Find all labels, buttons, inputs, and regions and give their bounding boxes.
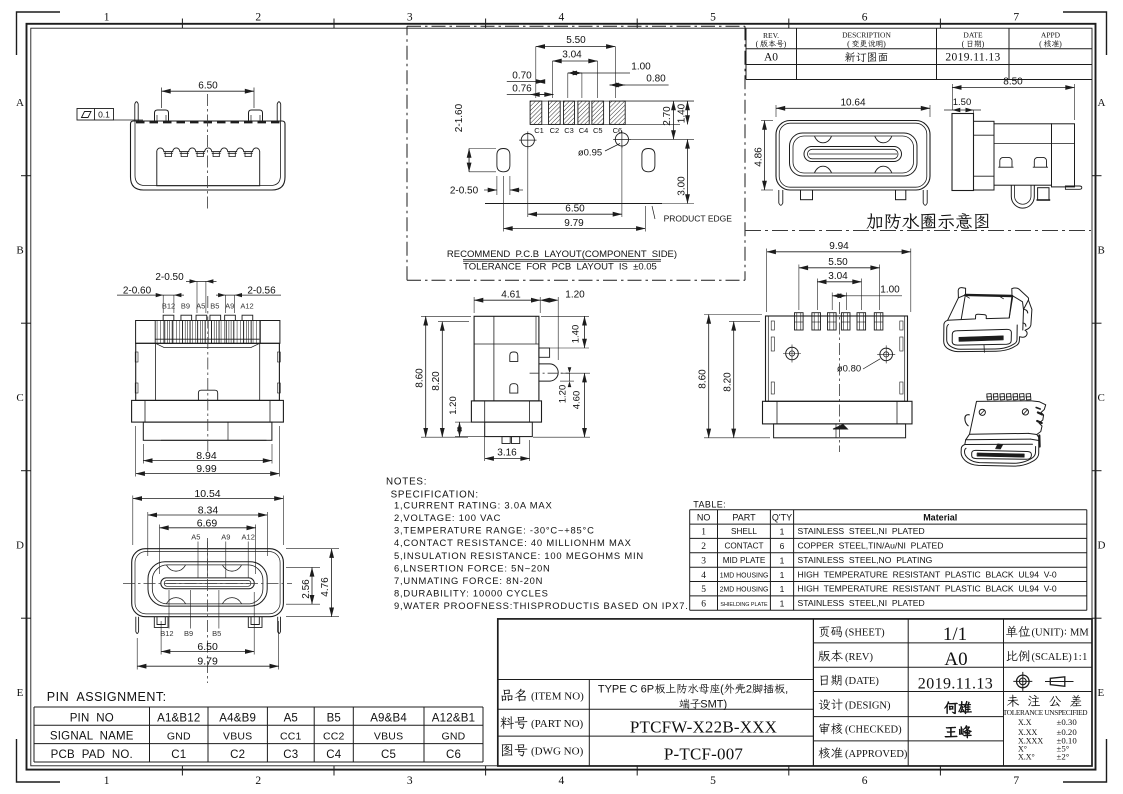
svg-text:A12: A12 <box>242 533 255 542</box>
svg-text:PIN NO: PIN NO <box>70 712 114 724</box>
svg-text:APPD: APPD <box>1041 31 1061 40</box>
svg-text:3: 3 <box>407 775 413 787</box>
svg-text:NOTES:: NOTES: <box>386 476 427 487</box>
svg-text:0.1: 0.1 <box>98 109 110 119</box>
svg-text:6: 6 <box>862 775 868 787</box>
svg-text:C: C <box>16 392 23 404</box>
svg-text:C3: C3 <box>283 749 298 761</box>
svg-text:0.70: 0.70 <box>512 71 532 82</box>
svg-text:5,INSULATION RESISTANCE: 100 M: 5,INSULATION RESISTANCE: 100 MEGOHMS MIN <box>394 550 644 561</box>
svg-text:MM: MM <box>1070 628 1089 639</box>
svg-text:2-0.56: 2-0.56 <box>247 285 276 296</box>
svg-text:7,UNMATING FORCE: 8N-20N: 7,UNMATING FORCE: 8N-20N <box>394 575 543 586</box>
svg-text:2MD HOUSING: 2MD HOUSING <box>720 587 769 594</box>
svg-text:A4&B9: A4&B9 <box>219 712 256 724</box>
svg-text:3.04: 3.04 <box>828 271 848 282</box>
svg-text:C4: C4 <box>579 126 589 135</box>
svg-text:C5: C5 <box>381 749 396 761</box>
svg-text:2: 2 <box>701 542 706 552</box>
svg-text:2: 2 <box>746 684 752 696</box>
svg-text:0.76: 0.76 <box>512 84 532 95</box>
svg-text:1.20: 1.20 <box>448 396 459 415</box>
svg-text:9.94: 9.94 <box>829 241 849 252</box>
svg-text:C: C <box>1098 392 1105 404</box>
svg-text:6: 6 <box>780 541 785 551</box>
svg-text:B5: B5 <box>212 629 221 638</box>
svg-text:1.00: 1.00 <box>631 62 651 73</box>
svg-text:2-0.50: 2-0.50 <box>450 186 479 197</box>
svg-text:,: , <box>785 684 788 696</box>
svg-text:PCB PAD NO.: PCB PAD NO. <box>51 749 133 761</box>
svg-text:TOLERANCE FOR PCB LAYOUT I: TOLERANCE FOR PCB LAYOUT IS ±0.05 <box>463 262 657 273</box>
svg-text:4.61: 4.61 <box>501 290 521 301</box>
svg-text:): ) <box>982 40 985 49</box>
svg-text:0.80: 0.80 <box>646 74 666 85</box>
svg-text:PTCFW-X22B-XXX: PTCFW-X22B-XXX <box>630 718 777 737</box>
svg-text:(: ( <box>962 40 965 49</box>
svg-text:4: 4 <box>559 12 565 24</box>
svg-text:4: 4 <box>559 775 565 787</box>
svg-text:C6: C6 <box>613 126 623 135</box>
svg-text:A5: A5 <box>191 533 200 542</box>
svg-text:HIGH TEMPERATURE RESISTANT: HIGH TEMPERATURE RESISTANT PLASTIC BLACK… <box>798 584 1057 594</box>
svg-text:STAINLESS STEEL,NI PLATED: STAINLESS STEEL,NI PLATED <box>798 598 925 608</box>
svg-text:7: 7 <box>1013 12 1019 24</box>
svg-text:2-1.60: 2-1.60 <box>454 103 465 132</box>
svg-text:2-0.50: 2-0.50 <box>155 272 184 283</box>
svg-text:4.76: 4.76 <box>320 577 331 597</box>
svg-text:(APPROVED): (APPROVED) <box>845 749 908 760</box>
svg-text:STAINLESS STEEL,NI PLATED: STAINLESS STEEL,NI PLATED <box>798 526 925 536</box>
svg-text:CC2: CC2 <box>323 731 345 743</box>
svg-text:HIGH TEMPERATURE RESISTANT: HIGH TEMPERATURE RESISTANT PLASTIC BLACK… <box>798 569 1057 579</box>
svg-text:8.34: 8.34 <box>198 505 219 517</box>
svg-text:B5: B5 <box>210 302 219 311</box>
svg-text:COPPER STEEL,TIN/Au/NI PLATE: COPPER STEEL,TIN/Au/NI PLATED <box>798 541 944 551</box>
svg-text:±0.30: ±0.30 <box>1057 717 1078 727</box>
svg-text:1.20: 1.20 <box>565 290 585 301</box>
svg-text:REV.: REV. <box>763 31 779 40</box>
svg-text:): ) <box>1059 40 1062 49</box>
svg-text:6.50: 6.50 <box>565 204 585 215</box>
svg-text:8,DURABILITY: 10000 CYCLES: 8,DURABILITY: 10000 CYCLES <box>394 588 549 599</box>
svg-text:A0: A0 <box>944 649 967 670</box>
svg-text:GND: GND <box>442 731 466 743</box>
svg-text:2.56: 2.56 <box>301 579 312 599</box>
svg-text:B12: B12 <box>162 302 175 311</box>
svg-text:6.69: 6.69 <box>197 517 218 529</box>
svg-text:(DESIGN): (DESIGN) <box>845 700 891 711</box>
svg-text:7: 7 <box>1013 775 1019 787</box>
svg-text:5.50: 5.50 <box>566 35 586 46</box>
svg-text:(: ( <box>847 40 850 49</box>
svg-text:C1: C1 <box>171 749 186 761</box>
svg-text:3,TEMPERATURE RANGE: -30°C~+85: 3,TEMPERATURE RANGE: -30°C~+85°C <box>394 525 595 536</box>
svg-text:(: ( <box>720 684 724 696</box>
svg-text:Material: Material <box>923 512 957 522</box>
svg-text:B: B <box>16 244 23 256</box>
svg-text:8.60: 8.60 <box>414 368 425 388</box>
svg-text:(SHEET): (SHEET) <box>845 628 885 639</box>
svg-text:): ) <box>883 40 886 49</box>
svg-text::: : <box>1064 627 1067 638</box>
svg-text:C3: C3 <box>564 126 574 135</box>
svg-text:X.X°: X.X° <box>1018 753 1035 762</box>
svg-text:A5: A5 <box>196 302 205 311</box>
svg-text:10.64: 10.64 <box>840 98 865 109</box>
svg-text:C1: C1 <box>534 126 544 135</box>
svg-text:5: 5 <box>710 775 716 787</box>
svg-text:SIGNAL NAME: SIGNAL NAME <box>50 731 134 743</box>
svg-text:A5: A5 <box>284 712 298 724</box>
svg-text:A9: A9 <box>221 533 230 542</box>
svg-text:(REV): (REV) <box>845 652 873 663</box>
svg-text:1: 1 <box>780 599 785 609</box>
svg-text:SHELL: SHELL <box>731 527 757 536</box>
svg-text:B9: B9 <box>181 302 190 311</box>
svg-text:1,CURRENT RATING: 3.0A MAX: 1,CURRENT RATING: 3.0A MAX <box>394 500 553 511</box>
svg-text:1: 1 <box>104 775 110 787</box>
svg-text:(DATE): (DATE) <box>845 676 879 687</box>
svg-text:1: 1 <box>780 527 785 537</box>
svg-text:4.86: 4.86 <box>754 147 765 167</box>
svg-text:8.50: 8.50 <box>1003 77 1023 88</box>
svg-text:MID PLATE: MID PLATE <box>723 556 766 565</box>
svg-text:1MD HOUSING: 1MD HOUSING <box>720 572 769 579</box>
svg-text:4,CONTACT RESISTANCE: 40 MILLI: 4,CONTACT RESISTANCE: 40 MILLIONHM MAX <box>394 537 632 548</box>
svg-text:D: D <box>16 540 24 552</box>
svg-text:C6: C6 <box>446 749 461 761</box>
svg-text:E: E <box>1098 687 1105 699</box>
svg-text:DESCRIPTION: DESCRIPTION <box>842 31 891 40</box>
svg-text:1: 1 <box>780 570 785 580</box>
svg-text:9.99: 9.99 <box>196 463 217 475</box>
svg-text:P-TCF-007: P-TCF-007 <box>664 745 744 764</box>
svg-text:Q'TY: Q'TY <box>772 512 792 522</box>
svg-text:2: 2 <box>255 12 261 24</box>
svg-text:(UNIT): (UNIT) <box>1032 628 1065 639</box>
svg-text:VBUS: VBUS <box>374 731 403 743</box>
svg-text:B12: B12 <box>160 629 173 638</box>
svg-text:B5: B5 <box>327 712 341 724</box>
svg-text:6,LNSERTION FORCE: 5N~20N: 6,LNSERTION FORCE: 5N~20N <box>394 562 551 573</box>
svg-text:±2°: ±2° <box>1057 752 1070 762</box>
svg-text:NO: NO <box>697 512 711 522</box>
svg-text:3.04: 3.04 <box>562 50 582 61</box>
svg-text:8.60: 8.60 <box>697 369 708 389</box>
svg-text:PART: PART <box>732 512 756 522</box>
svg-text:4: 4 <box>701 571 706 581</box>
svg-text:C5: C5 <box>593 126 603 135</box>
svg-text:10.54: 10.54 <box>194 488 220 500</box>
svg-text:1: 1 <box>780 584 785 594</box>
svg-text:3.00: 3.00 <box>677 176 688 196</box>
svg-text:9,WATER PROOFNESS:THISPRODUCTI: 9,WATER PROOFNESS:THISPRODUCTIS BASED ON… <box>394 600 689 611</box>
svg-text:(PART NO): (PART NO) <box>531 718 584 730</box>
svg-text:2,VOLTAGE: 100 VAC: 2,VOLTAGE: 100 VAC <box>394 512 501 523</box>
svg-text:C2: C2 <box>550 126 560 135</box>
svg-text:TABLE:: TABLE: <box>693 500 726 510</box>
svg-text:2-0.60: 2-0.60 <box>123 285 152 296</box>
svg-text:(SCALE): (SCALE) <box>1032 652 1073 663</box>
svg-text:E: E <box>17 687 24 699</box>
svg-text:9.79: 9.79 <box>564 218 584 229</box>
svg-text:6: 6 <box>862 12 868 24</box>
svg-text:CONTACT: CONTACT <box>725 542 764 551</box>
svg-text:A1&B12: A1&B12 <box>157 712 200 724</box>
svg-text:9.79: 9.79 <box>197 656 218 668</box>
svg-text:(: ( <box>1039 40 1042 49</box>
svg-text:8.20: 8.20 <box>722 372 733 392</box>
svg-text:TYPE C 6P: TYPE C 6P <box>598 684 657 696</box>
svg-text:8.20: 8.20 <box>431 371 442 391</box>
svg-text:(: ( <box>756 40 759 49</box>
svg-text:(CHECKED): (CHECKED) <box>845 725 902 736</box>
svg-text:D: D <box>1098 540 1106 552</box>
svg-text:X.X: X.X <box>1018 718 1032 727</box>
svg-text:3: 3 <box>407 12 413 24</box>
svg-text:5: 5 <box>710 12 716 24</box>
svg-text:1:1: 1:1 <box>1073 652 1088 663</box>
svg-text:1/1: 1/1 <box>943 624 967 645</box>
svg-text:A9: A9 <box>225 302 234 311</box>
svg-text:C4: C4 <box>326 749 342 761</box>
svg-text:6.50: 6.50 <box>198 81 218 92</box>
svg-text:CC1: CC1 <box>280 731 302 743</box>
svg-text:ø0.95: ø0.95 <box>578 148 602 159</box>
svg-text:(ITEM NO): (ITEM NO) <box>531 691 584 703</box>
svg-text:1.40: 1.40 <box>571 325 582 344</box>
svg-text:VBUS: VBUS <box>223 731 252 743</box>
svg-text:STAINLESS STEEL,NO PLATING: STAINLESS STEEL,NO PLATING <box>798 555 933 565</box>
svg-text:A: A <box>16 97 24 109</box>
svg-text:SMT): SMT) <box>700 699 727 711</box>
svg-text:): ) <box>784 40 787 49</box>
svg-text:DATE: DATE <box>963 31 983 40</box>
svg-text:(DWG NO): (DWG NO) <box>531 746 584 758</box>
svg-text:3: 3 <box>701 556 706 566</box>
svg-text:8.94: 8.94 <box>196 450 217 462</box>
svg-text:1: 1 <box>701 528 706 538</box>
svg-text:1.50: 1.50 <box>953 97 972 108</box>
svg-text:A12&B1: A12&B1 <box>432 712 475 724</box>
svg-text:6: 6 <box>701 600 706 610</box>
svg-text:PIN ASSIGNMENT:: PIN ASSIGNMENT: <box>47 690 167 704</box>
svg-text:1: 1 <box>780 555 785 565</box>
svg-text:A0: A0 <box>764 52 778 64</box>
svg-text:5.50: 5.50 <box>828 257 848 268</box>
svg-text:RECOMMEND P.C.B LAYOUT(COMPO: RECOMMEND P.C.B LAYOUT(COMPONENT SIDE) <box>447 249 677 260</box>
svg-text:4.60: 4.60 <box>572 391 583 410</box>
svg-text:B: B <box>1098 244 1105 256</box>
svg-text:2019.11.13: 2019.11.13 <box>945 52 1000 64</box>
svg-text:1.00: 1.00 <box>880 285 900 296</box>
svg-text:1.40: 1.40 <box>677 103 688 123</box>
svg-text:2: 2 <box>255 775 261 787</box>
svg-text:TOLERANCE UNSPECIFIED: TOLERANCE UNSPECIFIED <box>1003 708 1087 717</box>
svg-text:5: 5 <box>701 585 706 595</box>
svg-text:6.50: 6.50 <box>197 641 218 653</box>
svg-text:1.20: 1.20 <box>558 385 569 404</box>
svg-text:B9: B9 <box>184 629 193 638</box>
svg-text:2.70: 2.70 <box>662 106 673 126</box>
svg-text:ø0.80: ø0.80 <box>837 364 861 375</box>
svg-text:GND: GND <box>167 731 191 743</box>
svg-text:A9&B4: A9&B4 <box>370 712 407 724</box>
svg-text:A12: A12 <box>240 302 253 311</box>
svg-text:2019.11.13: 2019.11.13 <box>918 676 993 693</box>
svg-text:C2: C2 <box>230 749 245 761</box>
svg-text:SHIELDING PLATE: SHIELDING PLATE <box>720 602 768 608</box>
svg-text:PRODUCT EDGE: PRODUCT EDGE <box>664 214 733 224</box>
svg-text:1: 1 <box>104 12 110 24</box>
svg-text:3.16: 3.16 <box>497 448 517 459</box>
svg-text:A: A <box>1098 97 1106 109</box>
